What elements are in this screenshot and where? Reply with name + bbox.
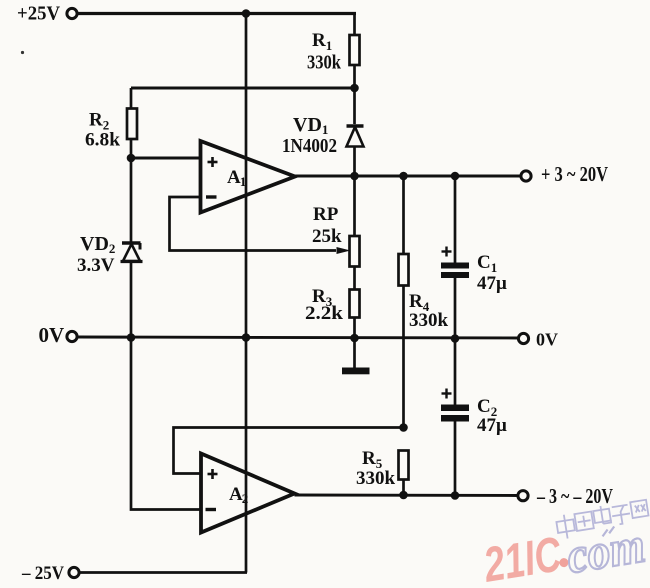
wire A1 output rail — [295, 175, 522, 178]
svg-text:25k: 25k — [312, 226, 342, 247]
wire main vertical V+ to V- — [245, 14, 248, 573]
svg-text:– 25V: – 25V — [21, 563, 64, 584]
svg-text:47μ: 47μ — [477, 415, 507, 436]
label R5 330k — [356, 448, 396, 489]
label VD2 3.3V — [77, 233, 115, 276]
svg-text:+ 3 ~ 20V: + 3 ~ 20V — [541, 162, 608, 186]
terminal +25V — [67, 8, 77, 18]
ground — [342, 338, 370, 374]
label R2 6.8k — [85, 110, 120, 151]
wire -25V rail — [79, 571, 247, 574]
子 — [611, 505, 632, 526]
label R4 330k — [409, 291, 449, 331]
svg-text:3.3V: 3.3V — [77, 255, 115, 276]
terminal -25V — [69, 567, 79, 577]
svg-text:6.8k: 6.8k — [85, 130, 120, 151]
capacitor C1 — [441, 176, 469, 339]
国 — [574, 511, 593, 530]
node junction output A1 — [350, 172, 359, 181]
node junction C1 bottom — [451, 334, 460, 343]
scan speck artifact — [21, 51, 24, 54]
node junction 0V main vertical — [242, 333, 251, 342]
svg-text:0V: 0V — [536, 330, 558, 350]
wire R2 top to R1 bottom — [131, 87, 355, 90]
node junction C1 top — [451, 172, 460, 181]
svg-text:0V: 0V — [39, 323, 65, 347]
node junction R2 bottom — [127, 154, 136, 163]
wire VD2 branch vertical — [130, 158, 133, 242]
node junction R1 bottom — [350, 84, 359, 93]
label R3 2.2k — [305, 286, 343, 324]
svg-text:330k: 330k — [409, 310, 449, 331]
label RP 25k — [312, 204, 342, 247]
node junction R4 top — [399, 172, 408, 181]
svg-text:330k: 330k — [307, 52, 342, 74]
resistor R4 — [399, 176, 409, 428]
label -3~-20V — [536, 484, 613, 508]
label A2 — [229, 484, 248, 506]
resistor R3 — [350, 290, 360, 338]
电 — [593, 505, 612, 525]
wire VD2 to 0V rail — [130, 262, 133, 338]
diode VD1 — [347, 88, 364, 176]
label +25V — [17, 3, 61, 25]
node junction R3 ground — [350, 334, 359, 343]
op-amp A2 — [201, 454, 295, 533]
terminal +3~20V — [521, 171, 531, 181]
watermark com text — [563, 516, 649, 584]
terminal -3~-20V — [518, 491, 528, 501]
wire 0V rail — [78, 337, 519, 338]
label +3~20V — [541, 162, 608, 186]
capacitor C2 — [441, 339, 469, 496]
wire to A1 noninverting input — [131, 157, 200, 160]
node junction R4 R5 — [399, 423, 408, 432]
op-amp A1 — [201, 141, 296, 213]
watermark 21IC wordmark — [480, 526, 572, 588]
svg-text:330k: 330k — [356, 468, 396, 489]
potentiometer RP — [350, 176, 360, 290]
node junction C2 bottom — [451, 491, 460, 500]
label -25V — [21, 563, 64, 584]
zener diode VD2 — [121, 243, 143, 262]
网 — [630, 500, 648, 518]
node junction top rail — [242, 9, 251, 18]
中 — [555, 513, 576, 539]
label C2 47u — [477, 396, 507, 436]
svg-text:+25V: +25V — [17, 3, 61, 25]
svg-text:2.2k: 2.2k — [305, 303, 343, 324]
wire A2 inverting input — [131, 338, 201, 510]
label 0V left — [39, 323, 65, 347]
terminal 0V right — [518, 333, 528, 343]
wire A1 feedback to RP wiper — [170, 197, 351, 254]
resistor R5 — [399, 451, 409, 496]
resistor R1 — [350, 14, 360, 89]
label R1 330k — [307, 30, 342, 74]
wire top rail +25V — [78, 12, 357, 15]
wire A2 feedback — [174, 428, 404, 474]
svg-text:RP: RP — [313, 204, 339, 225]
svg-text:– 3 ~ – 20V: – 3 ~ – 20V — [536, 484, 613, 508]
terminal 0V left — [67, 331, 77, 341]
svg-text:47μ: 47μ — [477, 273, 507, 294]
wire A2 output rail — [295, 494, 519, 497]
svg-text:1N4002: 1N4002 — [282, 135, 337, 157]
node junction 0V VD2 — [127, 333, 136, 342]
label C1 47u — [477, 252, 507, 294]
watermark chinese characters 中国电子网 — [555, 499, 650, 540]
label A1 — [227, 167, 246, 189]
node junction R5 bottom — [399, 491, 408, 500]
resistor R2 — [127, 88, 137, 158]
label VD1 1N4002 — [282, 114, 337, 157]
label 0V right — [536, 330, 558, 350]
